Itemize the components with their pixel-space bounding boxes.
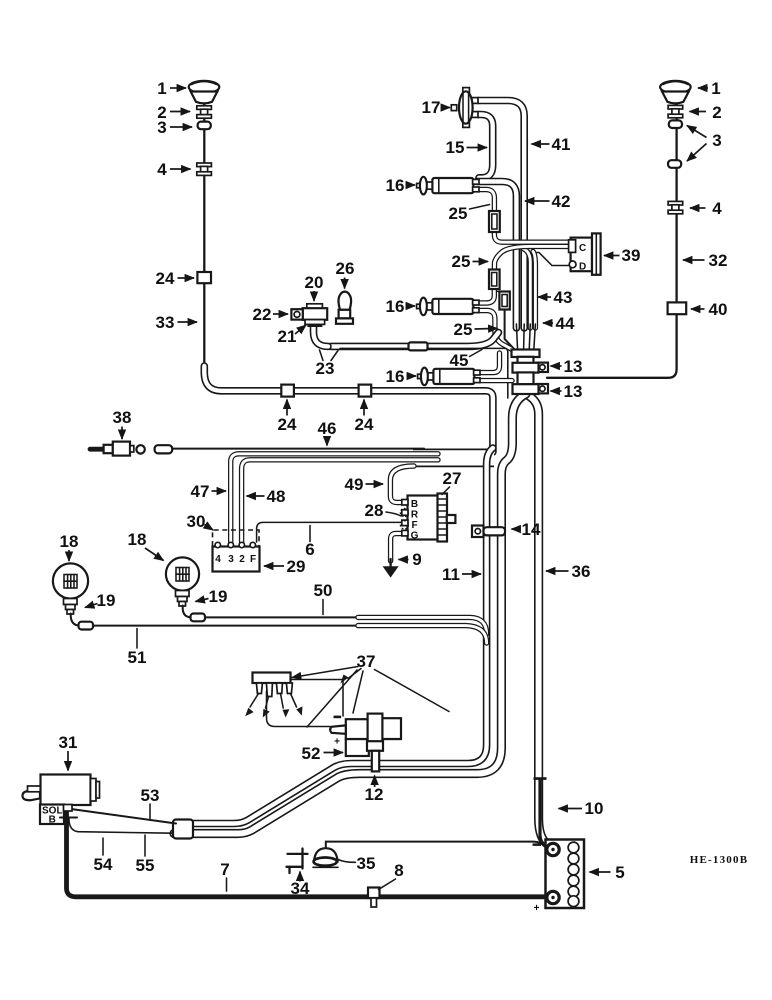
- wire 15 from lamp 17 lower contact down to lamp 16a: [478, 115, 493, 178]
- light switch block 29 with terminals 4 3 2 F: [213, 542, 260, 571]
- svg-text:3: 3: [228, 554, 234, 565]
- wire lamp 16b upper contact up to fuse B: [479, 289, 494, 303]
- svg-text:55: 55: [136, 856, 155, 875]
- wire 44 from connector 39 D terminal into center bundle: [532, 253, 570, 266]
- battery negative post: [533, 843, 560, 855]
- svg-text:21: 21: [278, 327, 297, 346]
- svg-text:17: 17: [422, 98, 441, 117]
- svg-text:10: 10: [585, 799, 604, 818]
- wire 42 from lamp 16a upper contact down center: [477, 182, 516, 329]
- gauge 18 right connector stack 19: [176, 591, 206, 622]
- svg-text:D: D: [579, 262, 586, 273]
- wire 41 harness from lamp 17 top contact down center: [478, 101, 524, 329]
- svg-text:C: C: [579, 243, 586, 254]
- wire lamp 16c upper contact to junction: [480, 353, 500, 373]
- horn 35: [313, 848, 338, 867]
- svg-text:35: 35: [357, 854, 376, 873]
- svg-text:4: 4: [157, 160, 167, 179]
- junction spool upper flange: [512, 350, 540, 364]
- wire from fuse B down to fuse C: [494, 289, 504, 294]
- harness sheath of bundle 46: [413, 448, 494, 467]
- fuse A: [489, 211, 500, 232]
- svg-text:12: 12: [365, 785, 384, 804]
- svg-text:28: 28: [365, 501, 384, 520]
- svg-text:54: 54: [94, 855, 113, 874]
- svg-text:13: 13: [564, 357, 583, 376]
- junction neck: [518, 372, 534, 384]
- knob 26: [336, 292, 353, 324]
- battery 5: [546, 840, 585, 909]
- svg-text:HE-1300B: HE-1300B: [690, 854, 749, 866]
- svg-text:14: 14: [522, 520, 541, 539]
- connector 4 right: [668, 201, 683, 213]
- svg-text:18: 18: [128, 530, 147, 549]
- fuse B: [489, 270, 500, 290]
- horn feed wire: [326, 842, 544, 848]
- lamp 1 left headlamp: [189, 81, 220, 104]
- harness left branch from junction down to coil area: [174, 394, 526, 834]
- voltage regulator 27 28: [400, 494, 455, 542]
- svg-text:48: 48: [267, 487, 286, 506]
- svg-text:34: 34: [291, 879, 310, 898]
- svg-text:G: G: [411, 531, 419, 542]
- lamp 17 flood lamp: [451, 88, 478, 128]
- wire lamp 16c lower contact to junction: [480, 378, 512, 383]
- spark plug wires with arrows: [245, 694, 302, 718]
- resistor connector on harness (53 54 55): [173, 820, 193, 839]
- wire 25 lamp 16a lower contact to fuse A: [479, 190, 494, 213]
- svg-text:13: 13: [564, 382, 583, 401]
- svg-text:B: B: [49, 815, 56, 826]
- svg-text:51: 51: [128, 648, 147, 667]
- wire 43 from fuse A bottom curving into center bundle: [494, 231, 570, 242]
- svg-text:22: 22: [253, 305, 272, 324]
- lamp 16 c: [418, 368, 480, 386]
- svg-text:18: 18: [60, 532, 79, 551]
- connector 3 right lower: [668, 160, 681, 168]
- connector 3 left: [198, 122, 211, 130]
- svg-text:3: 3: [712, 131, 721, 150]
- wire 50 from fuel gauge to harness: [205, 616, 360, 618]
- wire from item 38 along bundle 46: [172, 448, 424, 450]
- connector 4 left: [197, 163, 212, 175]
- wire 6 regulator F to switch 29 F terminal: [257, 522, 402, 542]
- wire 25 below fuse C down to junction: [505, 310, 516, 352]
- bracket 34: [287, 849, 308, 874]
- connector 3 right upper: [669, 120, 682, 128]
- svg-text:49: 49: [345, 475, 364, 494]
- svg-text:38: 38: [113, 408, 132, 427]
- svg-text:43: 43: [554, 288, 573, 307]
- svg-text:45: 45: [450, 351, 469, 370]
- wire from regulator G terminal to ground: [391, 534, 404, 562]
- svg-text:4: 4: [215, 554, 221, 565]
- connector 2 left: [197, 106, 212, 118]
- svg-text:2: 2: [712, 103, 721, 122]
- svg-text:19: 19: [209, 587, 228, 606]
- svg-text:25: 25: [454, 320, 473, 339]
- svg-text:19: 19: [97, 591, 116, 610]
- solenoid wire to resistor: [71, 809, 176, 824]
- svg-text:53: 53: [141, 786, 160, 805]
- svg-text:32: 32: [709, 251, 728, 270]
- svg-text:20: 20: [305, 273, 324, 292]
- svg-text:5: 5: [615, 863, 624, 882]
- gauge 18 left connector stack 19: [64, 599, 94, 630]
- connector 14 on harness: [472, 526, 505, 538]
- svg-text:25: 25: [449, 204, 468, 223]
- svg-text:9: 9: [412, 550, 421, 569]
- connector 24 on left column: [197, 272, 211, 283]
- lamp 16 a: [417, 177, 479, 195]
- svg-text:24: 24: [156, 269, 175, 288]
- leader lines for 37: [292, 667, 449, 728]
- connector 2 right: [668, 105, 683, 117]
- wire 33 left lamp column: [203, 103, 205, 372]
- wire 48 from bundle down to switch 29 terminal 2: [242, 460, 438, 545]
- svg-text:23: 23: [316, 359, 335, 378]
- temp gauge 18 right: [166, 557, 199, 590]
- svg-text:F: F: [411, 520, 417, 531]
- connector 24 a on horizontal run: [281, 385, 294, 397]
- fuel gauge 18 left: [53, 563, 88, 598]
- wire 49 from sheath to regulator B terminal: [390, 466, 414, 503]
- battery positive post: [534, 891, 560, 914]
- svg-text:B: B: [411, 499, 418, 510]
- svg-text:3: 3: [157, 118, 166, 137]
- svg-text:7: 7: [220, 860, 229, 879]
- svg-text:2: 2: [239, 554, 245, 565]
- battery ground cable 7: [67, 812, 550, 897]
- svg-text:11: 11: [442, 565, 460, 584]
- svg-text:40: 40: [709, 300, 728, 319]
- svg-text:33: 33: [156, 313, 175, 332]
- wire lamp 16b lower contact down to junction: [479, 311, 512, 350]
- svg-text:31: 31: [59, 733, 78, 752]
- wire from junction to right lamp column: [547, 100, 677, 378]
- left column elbow into horizontal run with connectors 24: [204, 366, 493, 452]
- svg-text:47: 47: [191, 482, 210, 501]
- bundle wires converging into junction: [516, 324, 517, 350]
- lamp 16 b: [417, 298, 479, 316]
- svg-text:36: 36: [572, 562, 591, 581]
- svg-text:8: 8: [394, 861, 403, 880]
- svg-text:24: 24: [355, 415, 374, 434]
- svg-text:52: 52: [302, 744, 321, 763]
- coil stem item 12: [367, 741, 383, 771]
- fuse C: [499, 292, 509, 310]
- wires to connector 39 C terminal: [494, 246, 570, 270]
- svg-text:37: 37: [357, 652, 376, 671]
- coil high tension lead from distributor: [290, 680, 343, 717]
- svg-text:1: 1: [711, 79, 720, 98]
- battery cable rod 10: [534, 777, 547, 845]
- distributor points wire to coil tower: [267, 691, 331, 727]
- svg-text:4: 4: [712, 199, 722, 218]
- connector 39 with C and D terminals: [569, 233, 601, 274]
- wire 51 from temp gauge to harness: [93, 625, 360, 627]
- svg-text:29: 29: [287, 557, 306, 576]
- light switch 20 21 22 26: [291, 304, 327, 327]
- item 38 connector plug assembly: [90, 442, 172, 456]
- svg-text:1: 1: [157, 79, 166, 98]
- svg-text:16: 16: [386, 297, 405, 316]
- junction connector band with tag 13 lower: [513, 384, 549, 394]
- ground symbol 9: [383, 559, 399, 578]
- wire 55 solenoid to resistor: [69, 819, 173, 833]
- svg-text:16: 16: [386, 367, 405, 386]
- ignition coil 52: [330, 714, 401, 756]
- svg-text:42: 42: [552, 192, 571, 211]
- harness 36 right branch from junction down to battery: [529, 396, 548, 845]
- svg-text:26: 26: [336, 259, 355, 278]
- svg-text:F: F: [250, 554, 256, 565]
- svg-text:6: 6: [305, 540, 314, 559]
- connector 24 b on horizontal run: [359, 385, 372, 397]
- dashed outline 30: [213, 530, 260, 546]
- svg-text:+: +: [334, 737, 340, 748]
- cable clamp 8: [368, 888, 380, 908]
- svg-text:15: 15: [446, 138, 465, 157]
- svg-text:25: 25: [452, 252, 471, 271]
- wire 23 drop from light switch 21: [314, 324, 329, 347]
- svg-text:41: 41: [552, 135, 571, 154]
- svg-text:30: 30: [187, 512, 206, 531]
- connector pill on wire 45: [409, 342, 428, 350]
- svg-text:44: 44: [556, 314, 575, 333]
- svg-text:16: 16: [386, 176, 405, 195]
- junction connector band with tag 13 upper: [513, 363, 549, 373]
- wire 45 from light switch to junction: [331, 333, 499, 347]
- svg-text:46: 46: [318, 419, 337, 438]
- svg-text:+: +: [534, 903, 540, 914]
- svg-text:R: R: [411, 510, 419, 521]
- distributor 37 cap: [253, 673, 293, 697]
- wire from 45 run down junction left flank: [340, 348, 508, 398]
- svg-text:24: 24: [278, 415, 297, 434]
- wire 47 from bundle down to switch 29 terminal 3: [231, 454, 438, 545]
- svg-text:27: 27: [443, 469, 462, 488]
- wire 11 from sheath tee down, under coil to resistor: [177, 448, 493, 824]
- svg-text:50: 50: [314, 581, 333, 600]
- lamp 1 right headlamp: [660, 81, 691, 104]
- wire 43 branching from crossing down center bundle: [523, 249, 530, 329]
- svg-text:39: 39: [622, 246, 641, 265]
- starter solenoid 31: [23, 775, 100, 826]
- connector 40 right column: [668, 302, 687, 314]
